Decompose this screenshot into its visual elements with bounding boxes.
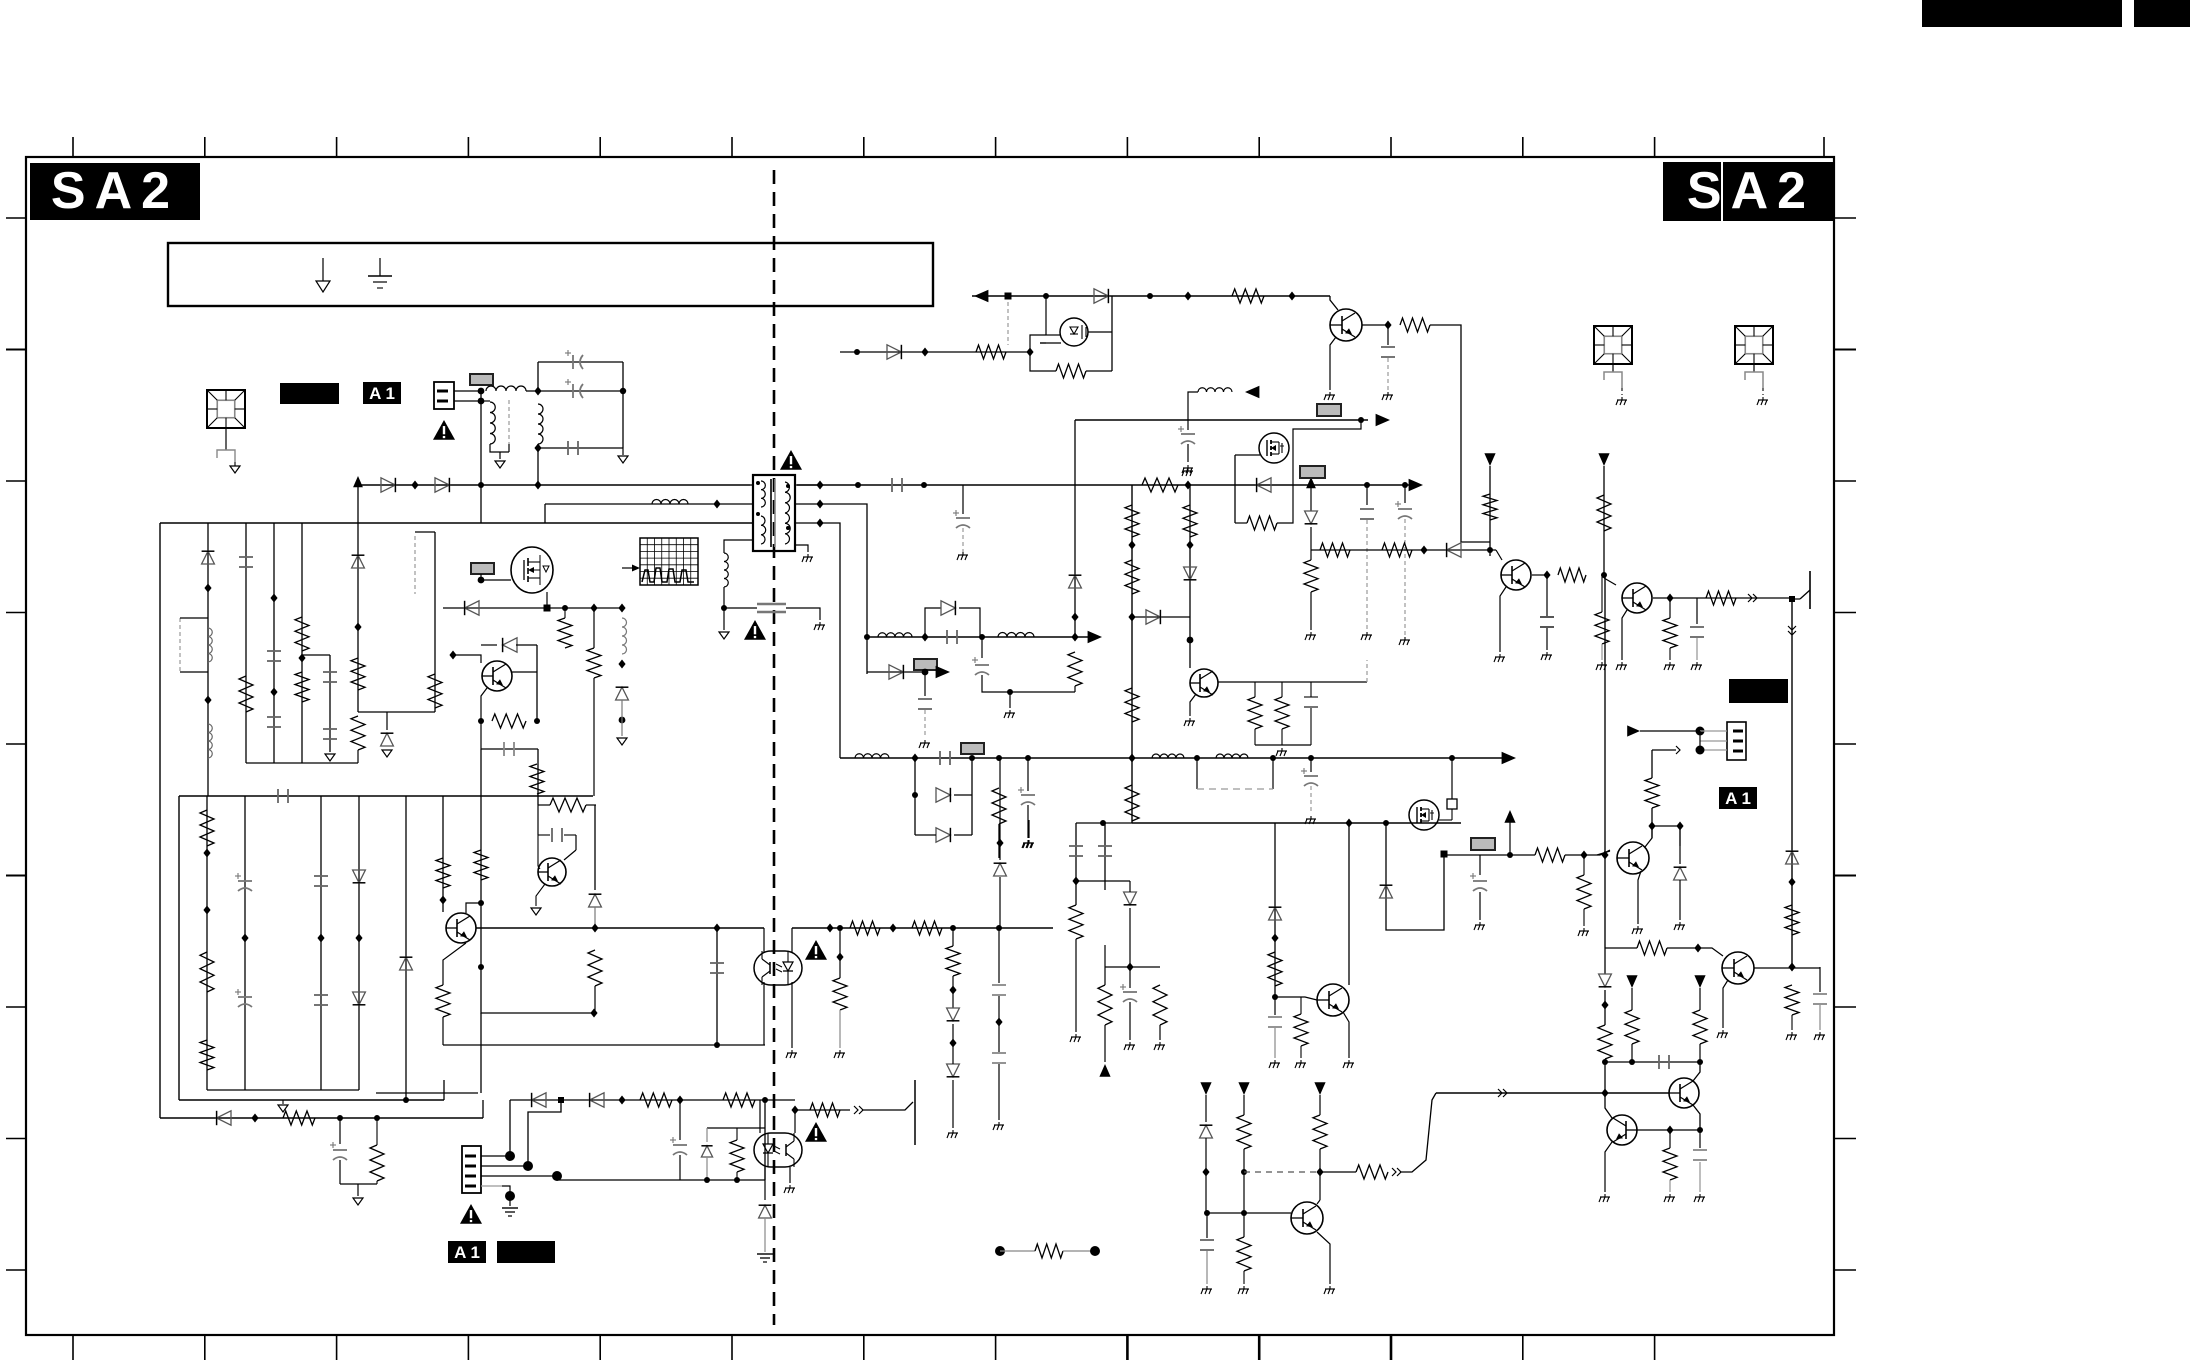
zener 707: [706, 1128, 708, 1142]
Q14 gate feed: [1451, 758, 1453, 799]
coil col208 a: [208, 628, 212, 662]
cap C26: [1069, 845, 1083, 847]
junction C2 right: [620, 388, 626, 394]
cap bank mid wire: [538, 390, 623, 392]
zener D66: [1200, 1125, 1213, 1138]
resistor R15: [1400, 318, 1430, 332]
ground 1028: [1027, 840, 1029, 843]
connector J1: [434, 382, 454, 409]
bypass loop b: [959, 608, 980, 637]
opto2: [759, 1100, 761, 1133]
ground 1130: [1129, 1042, 1131, 1045]
junction 1424-550: [1420, 546, 1427, 555]
junction sq 1792-598: [1789, 596, 1795, 602]
optocoupler U2: [754, 951, 802, 985]
ground 1792: [1791, 1032, 1793, 1035]
power arrow down 1632: [1626, 975, 1637, 988]
arrow left L5: [1245, 386, 1259, 399]
ground triangle under rail1100: [278, 1105, 288, 1112]
ground X2: [1621, 397, 1623, 400]
junction 1547-575: [1543, 571, 1550, 580]
resistor col302 b: [295, 672, 309, 702]
junction rail485 b: [478, 482, 484, 488]
cap series rail796: [277, 789, 279, 803]
ground 1680: [1679, 922, 1681, 925]
junction 1000-843: [996, 839, 1003, 848]
transistor Q2: [1330, 309, 1362, 341]
junction 972-758: [969, 755, 975, 761]
junction 622-720: [619, 717, 626, 724]
Q6 wires: [481, 579, 511, 581]
wire 881: [1076, 880, 1130, 882]
resistor R55: [1098, 985, 1112, 1025]
X2 ground: [1612, 364, 1614, 372]
ground triangle 622: [617, 738, 627, 745]
cap C3: [567, 441, 569, 455]
ground below 1188 cap: [1187, 468, 1189, 471]
column 406: [405, 796, 407, 1100]
ground triangle 358: [353, 1198, 363, 1205]
junction 1605-855: [1601, 851, 1608, 860]
resistor R31: [492, 714, 526, 728]
resistor R53: [946, 946, 960, 976]
cap C8: [1381, 346, 1395, 348]
gnd left under coil: [723, 608, 725, 630]
junction col274 b: [270, 688, 277, 697]
col 1206: [1205, 1095, 1207, 1122]
right pin 524: [795, 522, 820, 524]
opto1 right pins: [791, 928, 793, 953]
resistor R91: [1313, 1115, 1327, 1149]
power arrow down 1604: [1598, 453, 1609, 466]
warning triangle J2: [460, 1204, 482, 1224]
junction pin2: [478, 398, 485, 405]
mosfet Q14: [1409, 800, 1439, 830]
wire 1128: [707, 1127, 765, 1129]
Q4 emitter: [536, 884, 545, 906]
ground 925: [924, 740, 926, 743]
diode D51: [532, 1093, 546, 1107]
warning triangle U2: [805, 940, 827, 960]
label Q6: [471, 563, 494, 574]
diode D33: [936, 788, 950, 802]
col 596 lower: [594, 805, 596, 890]
wire 598: [1670, 597, 1792, 599]
junction 830-928: [826, 924, 833, 933]
cap at 1367: [1366, 485, 1368, 505]
col 594 res: [593, 608, 595, 648]
Q10 gate wire: [1235, 454, 1260, 456]
junction 1605-1005: [1601, 1001, 1608, 1010]
col 207 inner: [206, 796, 208, 1090]
transistor Q5: [482, 661, 512, 691]
resistor R63: [723, 1093, 755, 1107]
rail 928 right: [792, 927, 1053, 929]
cap C17: [918, 698, 932, 700]
col 1244: [1243, 1095, 1245, 1115]
svg-text:A 1: A 1: [454, 1243, 480, 1262]
column 387 zener: [386, 712, 388, 730]
resistor R90: [1237, 1115, 1251, 1149]
diode D25: [589, 894, 602, 907]
ground 840: [839, 1050, 841, 1053]
junction 1076-881: [1072, 877, 1079, 886]
solid state relay U3: [1060, 318, 1088, 346]
electrolytic C19b: [1310, 758, 1312, 772]
col 245 inner: [244, 796, 246, 1090]
connector J3: [1727, 722, 1746, 760]
Q19 collector: [1317, 1200, 1320, 1204]
junction 717-928: [713, 924, 720, 933]
ground 1275: [1274, 1060, 1276, 1063]
Q13 collector riser: [1348, 823, 1350, 985]
resistor R30: [550, 798, 586, 812]
junction J3 a: [1696, 727, 1705, 736]
U3 drain link: [1088, 331, 1112, 333]
electrolytic C21: [1398, 508, 1412, 510]
zener D39: [947, 1064, 960, 1077]
transformer T1: [753, 475, 795, 551]
resistor R42a: [1125, 505, 1139, 537]
junction col274 a: [270, 594, 277, 603]
rail 1180: [557, 1179, 765, 1181]
diode D35: [1146, 610, 1160, 624]
stub below cap bank: [622, 448, 624, 455]
page label SA2 top-right: [1663, 162, 1834, 221]
ground 1244: [1243, 1286, 1245, 1289]
electrolytic 680: [679, 1100, 681, 1140]
cap C36: [1268, 1016, 1282, 1018]
ground Q7: [1189, 718, 1191, 721]
Q14 loop: [1386, 823, 1444, 930]
Q18 emitter: [1605, 1142, 1612, 1192]
chevrons down 1792: [1788, 626, 1796, 630]
rail 420: [1075, 419, 1368, 421]
junction col208 b: [204, 696, 211, 705]
junction 1584-855: [1580, 851, 1587, 860]
wire 763: [246, 762, 358, 764]
up arrow on rail 485: [353, 476, 363, 487]
junction rail352 a: [854, 349, 860, 355]
junction 377-1118: [374, 1115, 380, 1121]
Q17 coll: [1693, 1105, 1700, 1130]
wire 948: [1605, 947, 1637, 949]
wire 645b: [516, 644, 537, 646]
ground 1602: [1601, 662, 1603, 665]
notice ground symbol arrow: [322, 258, 324, 281]
res 1670: [1669, 1130, 1671, 1148]
junction rail485 e: [1184, 481, 1191, 490]
resistor R73: [1382, 543, 1412, 557]
ground 1697: [1696, 662, 1698, 665]
cap bank vertical lower: [537, 444, 539, 485]
resistor on rail485: [1142, 478, 1178, 492]
Q5 collector: [512, 671, 537, 673]
col 283 gnd stub: [282, 1100, 284, 1104]
junction J2 p4: [505, 1191, 515, 1201]
cap col330 b: [323, 728, 337, 730]
junction sq 561: [558, 1097, 564, 1103]
U3 drain vertical: [1111, 296, 1113, 371]
branch 1820: [1819, 967, 1821, 992]
ladder right: [954, 794, 972, 796]
diode i359 b: [353, 992, 366, 1005]
junction 925-672: [922, 669, 929, 676]
junction 717-1045: [714, 1042, 720, 1048]
wire 855: [1444, 854, 1535, 856]
resistor below D12: [1304, 560, 1318, 592]
electrolytic C1: [572, 355, 574, 369]
left tick marks: [6, 217, 26, 219]
junction 765-1100: [762, 1097, 768, 1103]
junction 1490-550: [1487, 547, 1493, 553]
resistor R93: [1237, 1237, 1251, 1271]
power arrow down 1244: [1238, 1082, 1249, 1095]
ground U2: [791, 1050, 793, 1053]
junction 1028-758: [1025, 755, 1031, 761]
junction 1670-1130: [1666, 1126, 1673, 1135]
label near J1: [470, 374, 493, 385]
resistor R43: [1125, 688, 1139, 722]
junction rail485 d: [921, 482, 927, 488]
junction 1452-758: [1449, 755, 1455, 761]
junction rail485 f: [1364, 482, 1370, 488]
resistor R82: [1535, 848, 1565, 862]
Q12 collector wire: [1653, 597, 1670, 599]
resistor i207 c: [200, 1040, 214, 1070]
jog 504: [820, 504, 867, 674]
ground below cap bank: [618, 456, 628, 463]
top tick marks: [72, 137, 74, 157]
junction 481-721: [478, 718, 484, 724]
junction 1103-823: [1100, 820, 1106, 826]
junction tx 504: [816, 500, 823, 509]
main rail 485: [358, 484, 750, 486]
resistor i207 a: [200, 810, 214, 846]
junction 867-637: [864, 634, 870, 640]
T1 secondary: [785, 482, 790, 544]
ground triangle col387: [382, 750, 392, 757]
junction 1604-575: [1601, 572, 1607, 578]
junction 1680-826: [1676, 822, 1683, 831]
ground 1010: [1009, 710, 1011, 713]
power arrow down 1490: [1484, 453, 1495, 466]
junction 724-608: [721, 605, 727, 611]
junction J2 p3: [552, 1171, 562, 1181]
opto2 right pins: [794, 1110, 796, 1133]
filter inductor L1: [486, 386, 526, 391]
flat cap right: [786, 608, 820, 620]
Q19: [1319, 1172, 1321, 1200]
diode D52: [590, 1093, 604, 1107]
resistor R83: [1577, 875, 1591, 909]
Q19 emitter: [1317, 1232, 1330, 1284]
arrow rail637 end: [1088, 631, 1102, 644]
Q5 emitter: [481, 688, 487, 721]
transistor Q18: [1607, 1115, 1637, 1145]
junction 1700-1062: [1697, 1059, 1703, 1065]
cap C40: [1693, 1149, 1707, 1151]
zener D27: [503, 638, 517, 652]
junction 1132-545: [1128, 541, 1135, 550]
resistor below Q3: [436, 985, 450, 1017]
ground Q18: [1604, 1194, 1606, 1197]
wire pin1 down: [480, 391, 482, 485]
ground small at 1188: [1187, 465, 1189, 468]
junction 1605-1062: [1602, 1059, 1608, 1065]
Q19 base wire: [1207, 1212, 1291, 1214]
wire 749: [480, 721, 482, 749]
cap on rail485: [891, 478, 893, 492]
junction 1792-882: [1788, 878, 1795, 887]
wire to Q16: [1698, 948, 1723, 956]
net label 672: [914, 659, 937, 670]
resistor R46: [1183, 505, 1197, 537]
dashed drop 415: [414, 536, 416, 594]
cap C41: [1200, 1239, 1214, 1241]
net label at rail420: [1317, 404, 1341, 416]
ground 1670: [1669, 1194, 1671, 1197]
resistor R50: [588, 950, 602, 986]
junction i481 b: [478, 964, 484, 970]
ladder bottom b: [954, 834, 972, 836]
net label 758: [961, 743, 984, 754]
junction 1632-1062: [1629, 1059, 1635, 1065]
diode D34: [936, 828, 950, 842]
resistor R54: [1069, 905, 1083, 939]
inductor L5: [1198, 388, 1232, 392]
electrolytic i245 a: [238, 880, 252, 882]
cap C35: [1690, 626, 1704, 628]
junction col406 bottom: [403, 1097, 409, 1103]
junction 925-637: [921, 633, 928, 642]
col 359 inner: [358, 796, 360, 1090]
mosfet Q10: [1259, 433, 1289, 463]
resistor R78: [1663, 618, 1677, 648]
junction 622-608: [618, 604, 625, 613]
grid ref A1 right: [1719, 787, 1757, 809]
resistor 737: [736, 1128, 738, 1140]
resistor col358 a: [351, 658, 365, 690]
dashed stub 1008: [1007, 302, 1009, 345]
junction i207 b: [203, 906, 210, 915]
junction rail485 a: [411, 481, 418, 490]
cap col274 b: [267, 716, 281, 718]
net label VCC1: [1300, 466, 1325, 478]
diode D50: [217, 1111, 231, 1125]
cap C15: [946, 630, 948, 644]
column 435: [434, 532, 436, 712]
diode D5: [1094, 289, 1108, 303]
Q18 base wire: [1637, 1129, 1700, 1131]
junction 1197-758: [1194, 755, 1200, 761]
link dot right: [1090, 1246, 1100, 1256]
junction rail352 c: [1026, 348, 1033, 357]
Q15 emitter: [1638, 871, 1641, 924]
vertical 1190: [1189, 485, 1191, 668]
inductor L7: [998, 633, 1034, 638]
resistor R33: [558, 618, 572, 648]
choke bottom wire: [490, 444, 509, 452]
resistor R70: [1483, 494, 1497, 520]
wire 948b: [1667, 947, 1698, 949]
wire 1172: [1320, 1171, 1356, 1173]
resistor R65: [810, 1103, 840, 1117]
i481 corner: [481, 967, 594, 1013]
resistor R44: [1125, 785, 1139, 821]
resistor R42: [1125, 560, 1139, 594]
cap C12: [551, 828, 553, 842]
flat capacitor plates: [757, 603, 786, 606]
grid ref A1 box bottom: [448, 1241, 486, 1263]
junction 255-1118: [251, 1114, 258, 1123]
arrow rail420 end: [1376, 414, 1390, 427]
long vertical 1132: [1131, 485, 1133, 823]
T1 gnd wire: [795, 545, 808, 552]
transistor Q13: [1317, 984, 1349, 1016]
junction 893-928: [889, 924, 896, 933]
junction 594-608: [590, 604, 597, 613]
diode D6: [887, 345, 901, 359]
junction 1273-758: [1270, 755, 1276, 761]
T1 primary upper: [761, 481, 765, 507]
branch to Q10 drain: [1293, 420, 1361, 440]
resistor R14: [1056, 364, 1086, 378]
zener D22: [381, 733, 394, 746]
zener D54: [759, 1205, 772, 1218]
junction 358-712: [358, 711, 435, 713]
junction 915-795: [912, 792, 918, 798]
inductor L3: [652, 500, 688, 505]
junction col208 a: [204, 584, 211, 593]
junction 1275-997: [1272, 994, 1278, 1000]
junction i359: [355, 934, 362, 943]
bottom tick marks: [72, 1335, 74, 1360]
rail 296: [972, 295, 1330, 297]
wire L1 to C bank: [526, 390, 538, 392]
junction 1311-758: [1308, 755, 1314, 761]
Q15 base wire: [1597, 851, 1610, 855]
junction 680-1100: [676, 1096, 683, 1105]
source loop: [1030, 352, 1056, 371]
long vertical 1792: [1791, 598, 1793, 968]
resistor i207 b: [200, 952, 214, 992]
transistor Q12: [1622, 583, 1652, 613]
corner black box 1: [1922, 0, 2122, 27]
junction 595-928: [591, 924, 598, 933]
junction col302: [298, 654, 305, 663]
dashed box col180: [179, 618, 181, 672]
jog 524: [820, 523, 840, 758]
Q2 emitter: [1330, 337, 1336, 390]
main rail 485 right: [797, 484, 1418, 486]
inner bottom rail 1090: [207, 1089, 359, 1091]
electrolytic C16: [975, 664, 989, 666]
Q7 emitter: [1190, 694, 1196, 716]
pin1 riser: [509, 1100, 511, 1156]
resistor R95: [1645, 778, 1659, 808]
Q6 ellipse: [511, 547, 553, 593]
power arrow down 1700: [1694, 975, 1705, 988]
diode D60: [1447, 543, 1461, 557]
electrolytic C28: [1123, 991, 1137, 993]
X3 ground: [1753, 364, 1755, 372]
part label right: [1729, 679, 1788, 703]
coil R35: [622, 618, 627, 654]
resistor R64: [730, 1140, 744, 1172]
Q15 collector: [1645, 826, 1652, 847]
junction 1670-598: [1666, 594, 1673, 603]
